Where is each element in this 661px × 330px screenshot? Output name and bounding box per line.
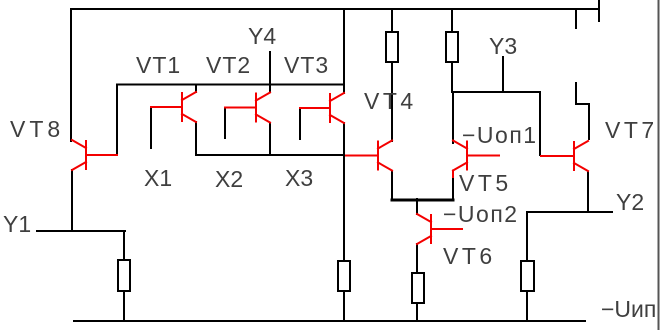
svg-text:VT1: VT1 <box>136 52 181 78</box>
svg-text:−Uоп2: −Uоп2 <box>443 201 519 227</box>
svg-text:X3: X3 <box>285 165 313 191</box>
svg-text:Y1: Y1 <box>3 211 31 237</box>
svg-text:VT6: VT6 <box>443 243 496 269</box>
svg-text:VT3: VT3 <box>284 52 329 78</box>
svg-text:−Uип: −Uип <box>601 296 656 322</box>
svg-text:VT8: VT8 <box>10 116 64 142</box>
svg-text:VT7: VT7 <box>605 117 658 143</box>
svg-text:X2: X2 <box>215 166 243 192</box>
svg-text:VT5: VT5 <box>459 170 512 196</box>
svg-text:Y4: Y4 <box>248 23 276 49</box>
svg-text:VT4: VT4 <box>364 88 417 114</box>
svg-text:−Uоп1: −Uоп1 <box>462 122 538 148</box>
svg-text:X1: X1 <box>144 165 172 191</box>
svg-text:VT2: VT2 <box>206 52 251 78</box>
svg-text:Y2: Y2 <box>616 189 644 215</box>
svg-text:Y3: Y3 <box>489 33 517 59</box>
